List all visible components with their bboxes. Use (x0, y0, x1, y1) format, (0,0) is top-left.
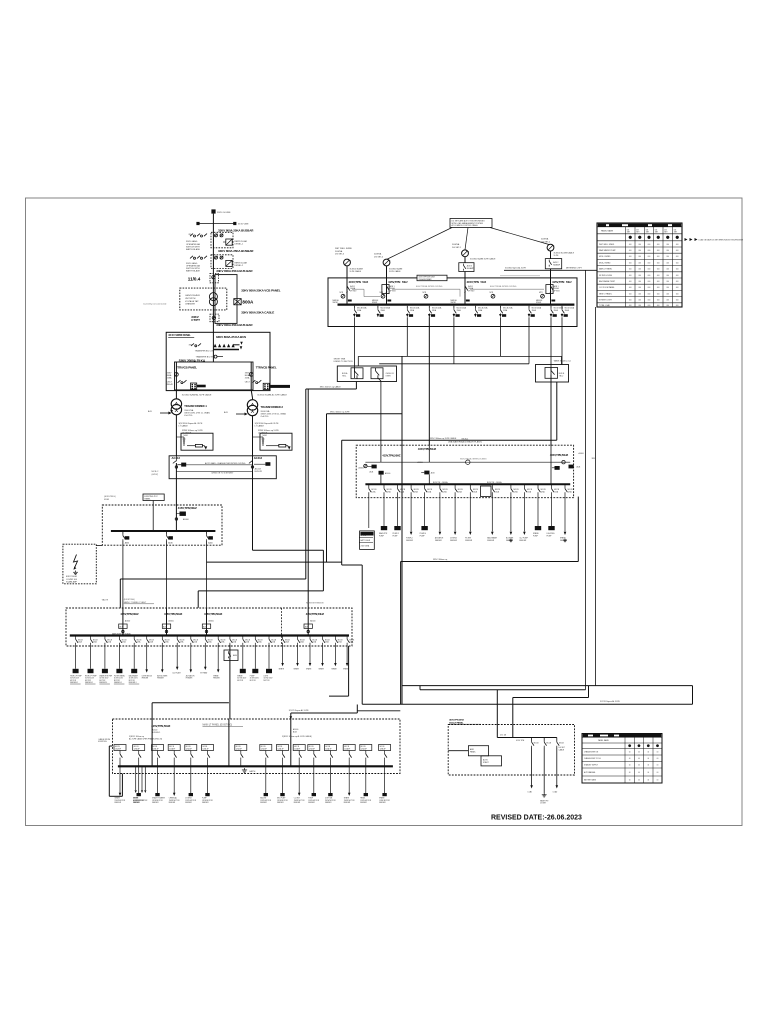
svg-text:EARTH BLADE: EARTH BLADE (186, 270, 201, 273)
svg-text:BUS TIE - 1600A: BUS TIE - 1600A (487, 481, 502, 484)
svg-text:MCB-2: MCB-2 (152, 471, 160, 473)
svg-text:000: 000 (666, 250, 669, 252)
svg-text:PANEL NAME: PANEL NAME (598, 739, 610, 742)
svg-text:500KVA: 500KVA (374, 253, 382, 256)
label box spare (417, 275, 447, 281)
wire bottom panel inlet 2 (356, 705, 358, 714)
svg-text:000: 000 (629, 287, 632, 289)
wire feeder-9 drop to MCC (550, 378, 552, 462)
table header bar (598, 224, 681, 227)
svg-text:33KV 800A 25KA BUSBAR: 33KV 800A 25KA BUSBAR (218, 249, 254, 253)
transformer T1 (171, 399, 181, 409)
svg-text:15KW MOTOR: 15KW MOTOR (169, 800, 181, 802)
svg-text:CL2 RM: CL2 RM (294, 798, 301, 800)
svg-text:AUTO: AUTO (483, 758, 489, 761)
table dot row (629, 236, 632, 239)
svg-text:OPERATED AB: OPERATED AB (186, 243, 201, 246)
svg-text:00: 00 (657, 765, 659, 767)
svg-text:SET: SET (627, 232, 630, 234)
svg-text:000: 000 (666, 275, 669, 277)
svg-text:PUMP: PUMP (533, 535, 539, 537)
feeder MCC-out-5 (420, 484, 433, 537)
svg-text:BACKWASH PUMP: BACKWASH PUMP (599, 280, 616, 283)
svg-text:3(3R5C 300mm sq AL XLPE CABLE): 3(3R5C 300mm sq AL XLPE CABLE) (282, 735, 312, 738)
CT metering box M2 (210, 314, 219, 322)
svg-text:00: 00 (647, 758, 649, 760)
svg-text:30 KW 415V: 30 KW 415V (250, 678, 260, 680)
svg-text:MCB-2 SWBD: MCB-2 SWBD (599, 262, 611, 264)
svg-text:FEEDER: FEEDER (260, 802, 267, 804)
wire feeder-2 drop to MCC (378, 378, 381, 381)
svg-text:000: 000 (676, 269, 679, 271)
svg-text:PARTICULAR: PARTICULAR (235, 262, 248, 265)
wire incomer-1b drop (151, 703, 153, 767)
svg-text:MCCB: MCCB (546, 743, 551, 745)
svg-text:CABLE: CABLE (559, 748, 565, 751)
svg-text:TRANSFER B/L COIL: TRANSFER B/L COIL (195, 350, 215, 353)
panel main-LT bottom enclosure (113, 719, 401, 774)
svg-text:000: 000 (676, 256, 679, 258)
feeder main-out-2 (377, 306, 391, 317)
note box generator synchronising (450, 219, 492, 228)
svg-text:MCCB: MCCB (134, 746, 139, 748)
svg-text:MAIN LT PANEL (EXISTING): MAIN LT PANEL (EXISTING) (203, 723, 233, 726)
svg-text:33KV 800A 25KA BUSBAR: 33KV 800A 25KA BUSBAR (218, 228, 254, 232)
breaker boxed MCC feeder (481, 486, 492, 497)
border frame (26, 198, 743, 826)
svg-text:MOTOR: MOTOR (237, 680, 244, 682)
feeder MCC-out-1 (369, 484, 377, 528)
svg-text:BUS-2R: BUS-2R (255, 471, 263, 473)
svg-text:LINKED TO SECTION: LINKED TO SECTION (334, 361, 353, 363)
svg-text:MCCB: MCCB (208, 639, 213, 641)
svg-text:4P EDO: 4P EDO (390, 290, 397, 292)
wire DG aux to metering table (504, 269, 597, 271)
svg-text:MAIN LT PANEL: MAIN LT PANEL (599, 268, 612, 271)
svg-text:FEEDER: FEEDER (379, 802, 386, 804)
feeder bottom-10 (293, 745, 305, 805)
svg-text:000: 000 (638, 269, 641, 271)
wire MCC right out (577, 497, 579, 562)
svg-text:15KW MOTOR: 15KW MOTOR (294, 800, 306, 802)
feeder MCC-out-12 (533, 484, 546, 537)
svg-text:000: 000 (638, 293, 641, 295)
svg-text:ELECTRICAL INTERLOCKING: ELECTRICAL INTERLOCKING (460, 457, 487, 460)
svg-text:LIGHT DB: LIGHT DB (325, 798, 332, 800)
svg-text:(EXISTING): (EXISTING) (124, 599, 135, 601)
svg-text:PUMP: PUMP (547, 535, 553, 537)
svg-text:SET: SET (655, 232, 658, 234)
svg-text:00: 00 (638, 772, 640, 774)
svg-text:33KV GANG: 33KV GANG (186, 262, 198, 265)
svg-text:33KV OH LINE: 33KV OH LINE (217, 212, 231, 214)
svg-text:MCCB: MCCB (300, 639, 305, 641)
wire trunk A (401, 356, 403, 704)
svg-text:4P EDO: 4P EDO (468, 290, 475, 292)
interlock wire right (470, 288, 544, 290)
svg-text:MCCB: MCCB (325, 639, 330, 641)
panel transfer box left (337, 366, 396, 382)
svg-text:000: 000 (648, 287, 651, 289)
node incoming-supply terminal (211, 209, 215, 213)
feeder PCC-out-1 (123, 531, 129, 608)
breaker MCC inc-mid (418, 461, 436, 484)
svg-text:MCCB: MCCB (203, 746, 208, 748)
svg-text:MCCB: MCCB (122, 639, 127, 641)
svg-text:PUMP: PUMP (420, 535, 426, 537)
svg-text:3CX70 Sqmm AL XLPE: 3CX70 Sqmm AL XLPE (600, 700, 621, 703)
breaker incomer-I2 (372, 278, 408, 305)
svg-text:FEEDER: FEEDER (157, 678, 164, 680)
svg-text:TIE-1: TIE-1 (342, 375, 346, 377)
wire MCB2 to LT-3 loop (252, 479, 254, 551)
svg-text:MOTOR: MOTOR (85, 680, 92, 682)
svg-text:50HZ: 50HZ (363, 282, 369, 284)
svg-text:00: 00 (629, 772, 631, 774)
breaker incomer-I4 (536, 278, 572, 305)
svg-text:000: 000 (676, 262, 679, 264)
svg-text:000: 000 (638, 244, 641, 246)
feeder DG-out-3 (553, 738, 564, 794)
wire branch B (327, 413, 403, 415)
NGR box 1 (181, 433, 213, 450)
switch-fuse group SF1 (190, 234, 193, 237)
interlock wire left (352, 288, 364, 290)
svg-text:SEC PUMP: SEC PUMP (277, 798, 285, 800)
avr unit dashed box (180, 288, 227, 310)
svg-text:415V,TPN,50HZ: 415V,TPN,50HZ (382, 453, 401, 457)
svg-text:MCCB: MCCB (380, 746, 385, 748)
svg-text:REVISED DATE:-26.06.2023: REVISED DATE:-26.06.2023 (491, 815, 582, 822)
switchboard main LT-HT board enclosure (328, 278, 577, 327)
feeder main-out-8 (528, 306, 542, 364)
svg-text:000: 000 (676, 287, 679, 289)
svg-text:15KW MOTOR: 15KW MOTOR (308, 800, 320, 802)
svg-text:NGR: NGR (184, 435, 189, 437)
svg-text:3R5C 300mm sq CABLE: 3R5C 300mm sq CABLE (320, 386, 342, 389)
feeder main-out-1 (353, 306, 367, 378)
note arrows beside table (685, 238, 688, 241)
svg-text:MOTOR: MOTOR (114, 680, 121, 682)
feeder bottom-15 (379, 745, 391, 805)
svg-text:MCCB: MCCB (534, 743, 539, 745)
svg-text:MOTOR: MOTOR (70, 680, 77, 682)
breaker MCC inc-1 (359, 464, 377, 473)
svg-text:MCCB: MCCB (294, 746, 299, 748)
wire right-transfer-out loop (556, 382, 558, 440)
svg-text:15KW MOTOR: 15KW MOTOR (277, 800, 289, 802)
svg-text:MCCB: MCCB (137, 639, 142, 641)
svg-text:AUTO MAIN - CHANGEOVER INTERLO: AUTO MAIN - CHANGEOVER INTERLOCKING (205, 462, 246, 465)
wire T2 secondary (252, 416, 254, 456)
generator G3 (452, 243, 496, 278)
svg-text:PANEL NAME: PANEL NAME (601, 230, 614, 233)
panel PCC dashed enclosure (102, 505, 222, 545)
svg-text:DG SET-1: DG SET-1 (452, 247, 462, 249)
feeder LT-out-5 (129, 636, 142, 685)
svg-text:00: 00 (657, 752, 659, 754)
panel MCB-2 enclosure (169, 456, 276, 479)
svg-text:000: 000 (676, 250, 679, 252)
svg-text:415V,TPN,50HZ: 415V,TPN,50HZ (550, 453, 569, 457)
svg-text:33KV 800A 25KA BUS BAR: 33KV 800A 25KA BUS BAR (216, 269, 253, 273)
svg-text:415V,TPN,50HZ: 415V,TPN,50HZ (449, 718, 464, 721)
feeder MCC-out-4 (406, 484, 419, 542)
svg-text:000: 000 (648, 300, 651, 302)
wire T1 secondary (175, 415, 177, 456)
feeder MCC-out-3 (393, 484, 406, 537)
svg-text:33KV/ 433V, DYN 11, ONAN: 33KV/ 433V, DYN 11, ONAN (184, 411, 210, 414)
svg-text:VOLTAGE TAP: VOLTAGE TAP (185, 300, 199, 303)
svg-text:STREET LIGHT: STREET LIGHT (599, 300, 613, 302)
svg-text:MCCB: MCCB (186, 746, 191, 748)
panel transfer box right (536, 365, 569, 383)
svg-text:000: 000 (666, 293, 669, 295)
svg-text:000: 000 (629, 250, 632, 252)
breaker LT-incomer-3 (202, 608, 222, 636)
wire bottom trunk V362 (361, 565, 363, 704)
wire label-box drop (152, 501, 154, 532)
svg-text:ACB EDO: ACB EDO (152, 731, 161, 734)
generator G1 (335, 248, 363, 278)
svg-text:25KA: 25KA (245, 376, 250, 379)
feeder LT-out-17 (294, 636, 305, 671)
isolator DS1 with earth switch (211, 232, 233, 248)
svg-text:A1600: A1600 (359, 466, 364, 469)
svg-text:VALVE: VALVE (102, 599, 109, 602)
svg-text:DETAIL-2: DETAIL-2 (235, 264, 245, 267)
svg-text:500KVA: 500KVA (452, 243, 460, 246)
feeder LT-out-19 (319, 636, 330, 671)
svg-text:4P EDO: 4P EDO (554, 290, 561, 292)
svg-text:CBCT: CBCT (245, 381, 251, 383)
svg-text:MOTOR: MOTOR (99, 680, 106, 682)
svg-text:000: 000 (629, 293, 632, 295)
svg-text:FEEDER: FEEDER (435, 540, 443, 542)
feeder bottom-7 (235, 745, 247, 767)
breaker LT-incomer-1 (119, 608, 139, 636)
svg-text:A1600: A1600 (209, 619, 214, 622)
svg-text:MCB-1 SWBD: MCB-1 SWBD (599, 256, 611, 258)
svg-text:MCCB: MCCB (309, 746, 314, 748)
svg-text:MCCB: MCCB (344, 746, 349, 748)
svg-text:15KW MOTOR: 15KW MOTOR (260, 800, 272, 802)
svg-text:TIE-2: TIE-2 (559, 376, 563, 378)
svg-text:MCCB: MCCB (361, 746, 366, 748)
feeder bottom-2 (133, 745, 145, 805)
svg-text:MCCB: MCCB (232, 639, 237, 641)
svg-text:DG SET: DG SET (540, 803, 546, 805)
svg-text:3(3CX300 Sqmm AL XLPE: 3(3CX300 Sqmm AL XLPE (255, 422, 279, 425)
wire tie line 2 (379, 363, 529, 365)
svg-text:2000A BUSBAR: 2000A BUSBAR (419, 278, 433, 281)
svg-text:000: 000 (638, 262, 641, 264)
breaker TB1 (351, 368, 363, 379)
svg-text:415V,TPN: 415V,TPN (349, 280, 361, 284)
svg-text:HIGH LIFT PMP: HIGH LIFT PMP (85, 675, 97, 677)
svg-text:000: 000 (666, 305, 669, 307)
svg-text:000: 000 (648, 269, 651, 271)
feeder LT-out-9 (186, 636, 198, 680)
svg-text:NEW EXTENSION: NEW EXTENSION (306, 603, 324, 605)
svg-text:MCCB: MCCB (338, 639, 343, 641)
svg-text:FEEDER: FEEDER (185, 802, 192, 804)
svg-text:MCCB: MCCB (153, 746, 158, 748)
meter instrument V3 (424, 294, 428, 298)
meter instrument V4 (491, 294, 495, 298)
node tap crossbar (198, 223, 235, 225)
wire aux gray (500, 275, 540, 277)
svg-text:MCCB: MCCB (93, 639, 98, 641)
feeder bottom-1 (114, 745, 126, 805)
wire incoming feeder (212, 214, 214, 333)
svg-text:AC413: AC413 (254, 456, 263, 460)
feeder LT-out-13 (237, 636, 250, 682)
svg-text:TTR/VCB PANEL: TTR/VCB PANEL (176, 366, 197, 370)
svg-text:SET: SET (636, 232, 639, 234)
svg-text:DG, TA: DG, TA (500, 733, 507, 736)
svg-text:000: 000 (638, 300, 641, 302)
svg-text:CHANGER: CHANGER (185, 303, 196, 306)
svg-text:000: 000 (638, 305, 641, 307)
wire way1 to T1 (175, 390, 177, 399)
feeder LT-out-4 (114, 636, 127, 685)
svg-text:000: 000 (629, 256, 632, 258)
svg-text:15KW MOTOR: 15KW MOTOR (360, 800, 372, 802)
feeder MCC-out-10 (506, 484, 519, 542)
svg-text:500KVA: 500KVA (335, 250, 343, 253)
svg-text:EARTH BLADE: EARTH BLADE (186, 248, 201, 251)
wire LT incomer link top (152, 702, 229, 704)
svg-text:FEEDER: FEEDER (519, 540, 527, 542)
feeder bottom-11 (308, 745, 320, 805)
svg-text:XLPE: XLPE (554, 255, 560, 257)
svg-text:A1600: A1600 (579, 452, 584, 455)
svg-text:AC413: AC413 (172, 456, 181, 460)
bus main 2000A (338, 303, 575, 305)
svg-text:PARTICULAR: PARTICULAR (235, 240, 248, 243)
wire bus tie upper (176, 464, 252, 466)
svg-text:DG SET-2: DG SET-2 (541, 241, 551, 243)
svg-text:TRANSFORMER-1: TRANSFORMER-1 (184, 404, 207, 408)
wire feeder-4 drop to MCC (428, 315, 430, 462)
feeder LT-out-12 (224, 636, 238, 720)
svg-text:Z=6.25%: Z=6.25% (261, 416, 269, 418)
svg-text:DOSING: DOSING (185, 798, 192, 800)
svg-text:FEEDER: FEEDER (186, 678, 193, 680)
svg-text:XLPE CABLE: XLPE CABLE (350, 270, 362, 273)
svg-text:TOTAL LOAD: TOTAL LOAD (599, 304, 611, 307)
wire DG feed 2 (588, 686, 590, 698)
svg-text:000: 000 (629, 305, 632, 307)
wire DG feed 1 (419, 686, 421, 690)
svg-text:HIGH LIFT PMP: HIGH LIFT PMP (70, 675, 82, 677)
svg-text:415V,TPN: 415V,TPN (388, 280, 400, 284)
feeder LT-out-6 (142, 636, 154, 680)
breaker incomer-I1 (333, 278, 369, 305)
feeder bottom-8 (260, 745, 272, 805)
svg-text:3CX300 SQMM AL XLPE CABLE: 3CX300 SQMM AL XLPE CABLE (182, 393, 212, 396)
svg-text:TRANSFORMER-2: TRANSFORMER-2 (261, 405, 284, 409)
svg-text:AC413: AC413 (255, 468, 262, 471)
feeder MCC-out-2 (379, 484, 392, 537)
svg-text:000: 000 (666, 269, 669, 271)
svg-text:SET: SET (664, 232, 667, 234)
svg-text:GEN/VCB AVR: GEN/VCB AVR (185, 294, 200, 297)
svg-text:MCCB: MCCB (559, 743, 564, 745)
svg-text:800A: 800A (242, 300, 254, 305)
svg-text:FEEDER-1: FEEDER-1 (129, 682, 137, 684)
svg-text:33 KV SWBD PANEL: 33 KV SWBD PANEL (168, 334, 191, 337)
feeder MCC-out-9 (487, 484, 500, 542)
battery charger box (359, 531, 374, 550)
svg-text:3CX70 Sqmm AL XLPE: 3CX70 Sqmm AL XLPE (289, 709, 310, 712)
feeder main-out-5 (453, 306, 467, 364)
feeder bottom-6 (202, 745, 214, 805)
svg-text:000: 000 (638, 250, 641, 252)
feeder LT-out-16 (279, 636, 290, 671)
wire note to G4 (490, 228, 549, 245)
svg-text:CHNG OR TO 3 3R NEXT: CHNG OR TO 3 3R NEXT (211, 472, 234, 474)
svg-text:SHORT TIME: SHORT TIME (334, 358, 346, 360)
feeder LT-out-2 (85, 636, 98, 685)
earth pit box (63, 544, 96, 584)
svg-text:MCCB: MCCB (261, 746, 266, 748)
svg-text:FEEDER: FEEDER (325, 802, 332, 804)
wire PCC incomer (175, 479, 177, 531)
bus duct inner box (175, 362, 254, 390)
svg-text:UPS &: UPS & (361, 535, 367, 537)
meter instrument V1 (341, 294, 345, 298)
svg-text:MCCB: MCCB (258, 639, 263, 641)
svg-text:A1600: A1600 (169, 619, 174, 622)
feeder MCC-out-11 (519, 484, 532, 542)
svg-text:3CX300 SQ MM CABLE: 3CX300 SQ MM CABLE (554, 252, 575, 255)
feeder main-out-3 (406, 306, 420, 357)
svg-text:LOAD ON EACH DG SET WHEN RUN I: LOAD ON EACH DG SET WHEN RUN IN SYNCHRON… (699, 238, 744, 241)
svg-text:000: 000 (676, 281, 679, 283)
svg-text:00: 00 (638, 758, 640, 760)
arrow tap T2 (236, 413, 246, 415)
breaker TB3 (545, 368, 558, 379)
svg-text:FEEDER: FEEDER (169, 802, 176, 804)
svg-text:000: 000 (648, 275, 651, 277)
generator G2 (374, 253, 403, 278)
svg-text:415V,TPN,50HZ: 415V,TPN,50HZ (418, 447, 437, 451)
svg-text:FEEDER-1: FEEDER-1 (99, 682, 107, 684)
svg-text:SET: SET (646, 232, 649, 234)
svg-text:30 KW 415V: 30 KW 415V (237, 678, 247, 680)
wire right riser 2 (595, 307, 597, 686)
svg-text:AL XLPE CABLE (PER PHASE) 3R5C: AL XLPE CABLE (PER PHASE) 3R5C B) (129, 737, 162, 740)
svg-text:EXISTING: EXISTING (98, 741, 107, 743)
breaker TB2 (371, 368, 383, 379)
svg-text:FEEDER: FEEDER (465, 540, 473, 542)
svg-text:3R5C 300mm sq XLPE CABLE: 3R5C 300mm sq XLPE CABLE (430, 437, 457, 440)
svg-text:15KW MOTOR: 15KW MOTOR (152, 800, 164, 802)
breaker box G3 (459, 263, 474, 272)
svg-text:Currently not connected: Currently not connected (143, 302, 167, 305)
breaker box G4 (545, 259, 561, 269)
svg-text:DETAIL-1: DETAIL-1 (235, 243, 245, 246)
relay cluster R1 (214, 344, 217, 347)
NGR box 2 (260, 433, 292, 450)
panel MCC-1 enclosure (356, 445, 573, 498)
switchboard 33KV SWBD enclosure (166, 332, 270, 390)
svg-text:LIGHT: LIGHT (264, 675, 269, 677)
svg-text:3R5C 300mm sq XLPE: 3R5C 300mm sq XLPE (330, 411, 350, 413)
breaker PCC incomer (180, 512, 186, 516)
